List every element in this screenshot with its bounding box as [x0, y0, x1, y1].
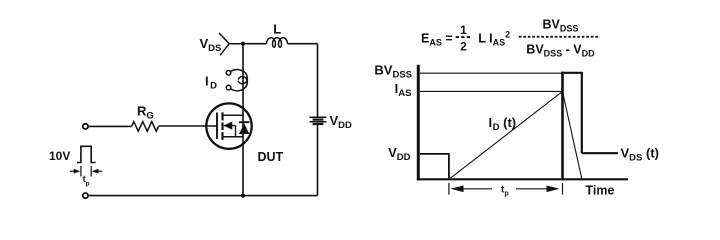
ID falling line — [563, 91, 582, 179]
tp arrows (pulse) — [70, 170, 74, 172]
VDS spike right edge — [581, 73, 583, 153]
svg-text:VDD: VDD — [330, 113, 353, 131]
VDD step of VDS waveform — [420, 154, 449, 179]
svg-text:Time: Time — [586, 183, 615, 197]
svg-text:DUT: DUT — [258, 150, 284, 164]
svg-text:L IAS2: L IAS2 — [478, 30, 510, 48]
wire: terminal to resistor — [88, 125, 131, 127]
graph y-axis — [417, 65, 420, 181]
MOSFET gate bar — [216, 113, 218, 140]
svg-text:VDD: VDD — [388, 145, 411, 163]
VDS probe — [219, 33, 243, 55]
svg-text:BVDSS - VDD: BVDSS - VDD — [526, 43, 595, 59]
MOSFET body arrow — [224, 125, 236, 127]
wire: junction to inductor — [243, 43, 267, 45]
svg-text:tp: tp — [83, 174, 90, 188]
MOSFET body diode — [239, 123, 249, 134]
MOSFET source stub — [223, 136, 244, 138]
MOSFET drain stub — [223, 114, 244, 116]
MOSFET channel segments — [221, 112, 223, 120]
svg-text:ID: ID — [205, 73, 217, 91]
svg-text:RG: RG — [137, 104, 154, 122]
BVDSS level line — [420, 72, 562, 74]
ID current probe — [226, 71, 231, 76]
fraction 1/2 bar (dashed) — [456, 36, 471, 38]
drain vertical wire — [242, 44, 244, 196]
tp arrow right (graph) — [516, 188, 548, 190]
svg-text:VDS: VDS — [200, 36, 222, 54]
svg-text:EAS =: EAS = — [421, 31, 453, 47]
junction dot bottom — [241, 194, 245, 198]
pulse source terminal (bottom) — [83, 193, 88, 198]
svg-text:IAS: IAS — [395, 81, 412, 99]
VDS spike top — [561, 72, 583, 74]
right rail upper — [317, 44, 319, 118]
svg-text:VDS (t): VDS (t) — [621, 146, 659, 164]
svg-text:BVDSS: BVDSS — [543, 17, 579, 33]
right rail lower — [317, 124, 319, 196]
ID ramp — [449, 91, 563, 179]
wire: inductor to right rail — [288, 43, 318, 45]
junction dot top — [241, 42, 245, 46]
tp dimension tick left (graph) — [448, 183, 450, 195]
svg-text:1: 1 — [460, 23, 467, 37]
big fraction bar (dashed) — [519, 36, 600, 38]
VDS spike left edge — [561, 72, 564, 180]
tp arrow left (graph) — [451, 186, 464, 193]
svg-text:tp: tp — [501, 185, 509, 198]
tp dimension tick right (graph) — [562, 183, 564, 195]
battery VDD — [310, 116, 327, 118]
tp dimension ticks (pulse) — [80, 166, 82, 177]
svg-text:L: L — [273, 22, 281, 37]
svg-text:2: 2 — [460, 39, 467, 53]
inductor L — [267, 38, 288, 48]
bottom wire — [88, 195, 317, 197]
VDS tail at VDD level — [582, 152, 618, 154]
svg-text:BVDSS: BVDSS — [374, 63, 412, 81]
pulse source terminal (top) — [83, 124, 88, 129]
svg-text:10V: 10V — [49, 149, 70, 163]
graph x-axis — [417, 178, 628, 180]
IAS level line — [420, 90, 563, 92]
10V pulse waveform symbol — [77, 146, 96, 162]
wire: resistor to gate — [159, 125, 218, 127]
resistor RG — [132, 122, 159, 132]
MOSFET Q1 (DUT) body circle — [206, 103, 251, 148]
